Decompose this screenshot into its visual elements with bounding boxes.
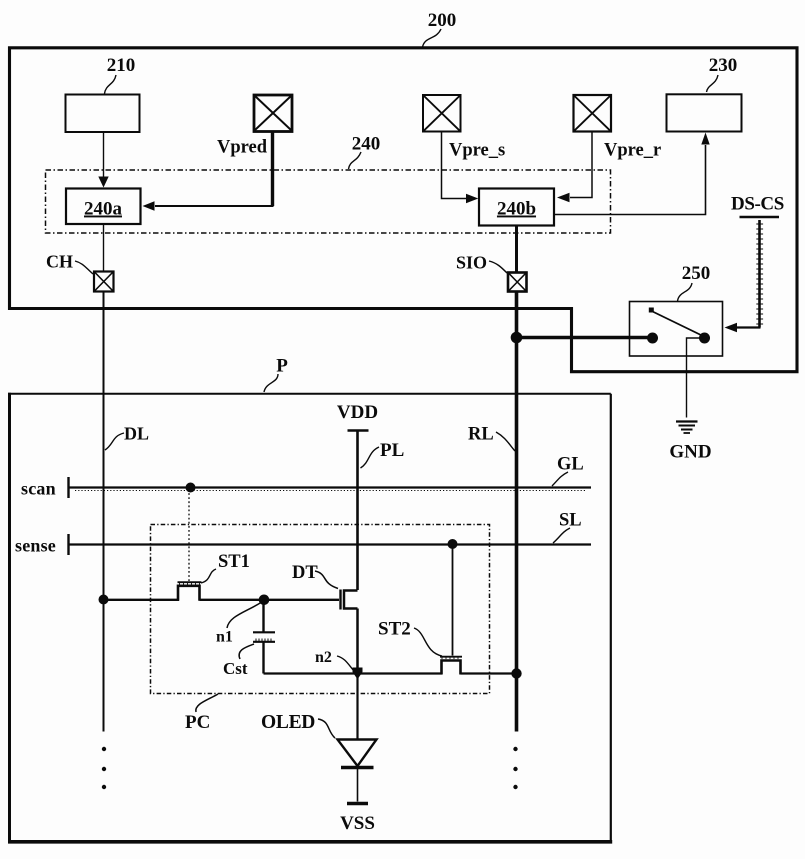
leader DL (105, 433, 124, 450)
ellipsis RL (513, 747, 517, 789)
svg-text:DS-CS: DS-CS (731, 194, 784, 215)
wire scan line GL (69, 477, 592, 498)
wire DS-CS to 250 with arrow (725, 220, 764, 332)
svg-text:230: 230 (709, 55, 738, 76)
svg-text:scan: scan (21, 479, 56, 499)
wire PL lower (356, 609, 359, 674)
switch contacts and lever (647, 308, 710, 344)
diode OLED (338, 740, 377, 768)
svg-text:250: 250 (682, 263, 711, 284)
wire junction to switch (517, 336, 649, 340)
block 240 dashed (46, 170, 611, 233)
transistor ST1 (178, 582, 202, 601)
leader n1 (227, 603, 261, 629)
node scan junction (186, 483, 196, 493)
terminal CH (94, 272, 114, 292)
block 240a (66, 189, 141, 225)
node junction SIO-RL (511, 332, 523, 344)
leader n2 (337, 656, 354, 671)
svg-text:P: P (276, 356, 288, 377)
svg-text:n2: n2 (315, 649, 332, 666)
wire Vpre_r to 240b with arrow (557, 132, 592, 203)
ellipsis DL (102, 747, 106, 789)
wire ST2 gate (452, 544, 454, 656)
wire DL to ST1 (104, 599, 180, 601)
wire ST1 gate dotted (188, 489, 190, 581)
svg-text:ST1: ST1 (218, 552, 250, 572)
leader 210 (105, 75, 117, 94)
leader GL (552, 472, 568, 486)
leader 200 (423, 29, 442, 47)
leader RL (496, 432, 515, 451)
block 230 (667, 94, 742, 131)
power VSS (340, 804, 375, 835)
wire Cst to ST2 (264, 672, 443, 674)
leader DT (315, 571, 338, 589)
wire DL vertical (103, 292, 105, 732)
transistor ST2 (440, 657, 462, 675)
power VDD (337, 402, 378, 431)
wire 240b to SIO (515, 226, 518, 273)
terminal Vpred (254, 95, 292, 132)
svg-text:sense: sense (15, 536, 56, 556)
wire 240a to CH (103, 225, 105, 272)
wire 240b to 230 with arrow (555, 133, 710, 215)
svg-text:DL: DL (124, 424, 149, 444)
capacitor Cst (253, 600, 275, 674)
svg-text:ST2: ST2 (378, 619, 411, 640)
wire Vpre_s to 240b with arrow (442, 132, 479, 204)
svg-text:SIO: SIO (456, 253, 487, 273)
block 250 switch box (630, 302, 723, 357)
svg-text:DT: DT (292, 563, 318, 583)
svg-text:CH: CH (46, 252, 73, 272)
svg-text:Vpre_r: Vpre_r (604, 141, 661, 161)
svg-text:200: 200 (428, 10, 457, 31)
svg-text:n1: n1 (216, 629, 233, 646)
node sense junction (448, 539, 458, 549)
leader P (264, 374, 278, 392)
svg-text:OLED: OLED (261, 712, 315, 733)
leader ST1 (201, 569, 216, 583)
label DS-CS (731, 194, 784, 218)
node RL junction (511, 668, 521, 678)
transistor DT (341, 590, 358, 610)
svg-text:PL: PL (380, 440, 404, 461)
svg-text:RL: RL (468, 425, 494, 445)
node n2 arrow (353, 668, 363, 680)
terminal Vpre_s (423, 95, 461, 132)
wire switch to ground (687, 338, 705, 418)
leader SL (553, 528, 570, 543)
svg-text:Vpre_s: Vpre_s (449, 141, 505, 161)
svg-text:VSS: VSS (340, 813, 375, 834)
node DL junction (99, 595, 109, 605)
block PC dashed (151, 525, 490, 694)
block 210 (66, 95, 140, 133)
wire sense line SL (69, 534, 592, 555)
node n1 (259, 595, 270, 606)
svg-text:PC: PC (185, 712, 210, 733)
wire RL vertical (515, 292, 519, 732)
svg-text:240b: 240b (497, 199, 536, 220)
leader 250 (678, 283, 693, 301)
svg-text:GND: GND (669, 442, 711, 463)
leader 240 (349, 152, 362, 169)
wire Vpred to 240a with arrow (143, 132, 274, 211)
block 200 outline (10, 48, 798, 372)
wire OLED to VSS (357, 769, 359, 802)
leader 230 (707, 75, 719, 92)
svg-text:SL: SL (559, 511, 582, 531)
leader PL (361, 447, 380, 468)
ground (676, 422, 698, 434)
leader PC (196, 694, 218, 712)
leader ST2 (414, 628, 442, 656)
svg-text:240a: 240a (84, 199, 123, 220)
wire ST2 to RL (461, 672, 517, 674)
leader OLED (318, 719, 335, 738)
leader CH (75, 261, 93, 274)
svg-text:Vpred: Vpred (217, 138, 268, 158)
svg-text:VDD: VDD (337, 402, 378, 423)
leader SIO (489, 261, 507, 273)
svg-text:210: 210 (107, 55, 136, 76)
leader Cst (239, 644, 254, 659)
terminal Vpre_r (574, 95, 612, 132)
svg-text:GL: GL (557, 455, 584, 475)
block 240b (479, 189, 554, 226)
wire n2 to OLED (356, 674, 358, 740)
wire ST1 to DT gate (200, 599, 340, 601)
block P outline (8, 393, 11, 842)
svg-text:240: 240 (352, 134, 381, 155)
svg-text:Cst: Cst (223, 659, 248, 678)
wire PL upper (356, 431, 359, 591)
wire 210 to 240a with arrow (98, 133, 108, 188)
terminal SIO (508, 273, 527, 292)
